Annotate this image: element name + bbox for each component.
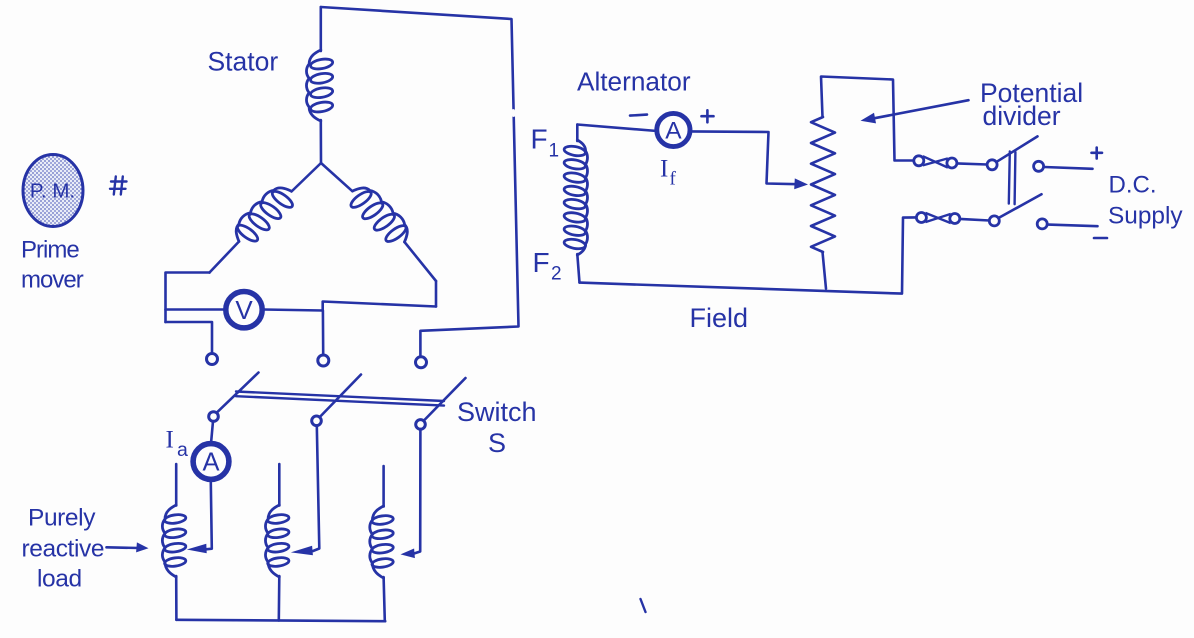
label minus (DC supply) bbox=[1094, 237, 1107, 240]
wire lower fuse to switch hinge bbox=[960, 219, 990, 221]
ammeter A (field) bbox=[657, 113, 690, 146]
wire F1 to field ammeter bbox=[577, 125, 657, 132]
wire DC plus lead bbox=[1044, 167, 1092, 169]
label I_f bbox=[660, 156, 677, 190]
switch S pole 2 bbox=[312, 416, 322, 426]
wire divider top bbox=[821, 77, 914, 161]
ammeter A (armature) bbox=[193, 444, 229, 480]
label Purely reactive load bbox=[22, 505, 105, 593]
inductor stator winding phase-2 (right diagonal) bbox=[344, 180, 415, 251]
svg-text:Purely: Purely bbox=[28, 505, 96, 532]
generator P.M. (prime mover) bbox=[23, 155, 83, 227]
wire switch pole 2 to load tap 2 bbox=[313, 425, 319, 551]
wire right winding to right corner bbox=[405, 242, 437, 281]
switch DC hinge lower bbox=[989, 216, 999, 226]
wire left vertical to voltmeter bbox=[166, 308, 226, 311]
label F2 bbox=[533, 247, 562, 285]
wire DC minus lead bbox=[1048, 225, 1097, 227]
wire left winding to left corner bbox=[210, 242, 240, 273]
switch DC gang bar bbox=[1009, 152, 1010, 204]
wire divider bottom lead bbox=[823, 252, 827, 289]
svg-text:A: A bbox=[665, 118, 682, 145]
svg-text:Prime: Prime bbox=[21, 237, 79, 264]
svg-text:f: f bbox=[670, 169, 677, 190]
wire F1 lead bbox=[576, 125, 579, 142]
wire load 3 bottom lead bbox=[384, 577, 385, 621]
wire left to terminal 1 bbox=[166, 322, 213, 356]
wire left corner step bbox=[166, 273, 210, 323]
svg-text:Stator: Stator bbox=[208, 47, 279, 77]
wire load 1 bottom lead bbox=[175, 576, 178, 620]
switch DC blade upper bbox=[997, 136, 1038, 161]
wire F2 lead bbox=[577, 254, 579, 283]
wire upper fuse to switch hinge bbox=[957, 163, 987, 164]
svg-text:load: load bbox=[37, 566, 82, 593]
fuse lower bbox=[916, 213, 926, 223]
wire load bottom bus bbox=[176, 620, 385, 621]
svg-text:a: a bbox=[177, 439, 188, 461]
node terminal 3 bbox=[416, 357, 427, 368]
label Prime mover bbox=[21, 237, 84, 294]
svg-text:S: S bbox=[488, 428, 506, 458]
node terminal 2 bbox=[318, 355, 329, 366]
load tap arrow 3 bbox=[401, 549, 415, 559]
svg-text:Switch: Switch bbox=[457, 397, 537, 427]
switch S blade 2 bbox=[320, 375, 361, 418]
voltmeter V bbox=[226, 292, 262, 328]
inductor load reactor 3 bbox=[370, 506, 394, 578]
svg-text:Alternator: Alternator bbox=[577, 67, 691, 97]
wire load 3 top lead bbox=[382, 466, 385, 507]
wire ammeter to load tap 1 bbox=[206, 482, 212, 549]
inductor alternator field winding bbox=[563, 140, 587, 255]
switch S pole 1 bbox=[209, 412, 219, 422]
switch DC contact upper bbox=[1034, 161, 1044, 171]
svg-text:I: I bbox=[660, 156, 668, 183]
wire switch pole 1 to ammeter bbox=[211, 421, 213, 443]
wire middle junction to terminal 2 bbox=[322, 311, 325, 356]
label F1 bbox=[531, 124, 560, 162]
svg-text:1: 1 bbox=[549, 141, 560, 162]
label minus (field ammeter) bbox=[630, 115, 647, 116]
svg-text:divider: divider bbox=[983, 101, 1061, 131]
load tap arrow 1 bbox=[187, 544, 207, 554]
switch DC hinge upper bbox=[987, 160, 997, 170]
wire stator coil to star point bbox=[319, 120, 322, 163]
divider annotation arrow bbox=[872, 100, 969, 119]
inductor load reactor 1 bbox=[162, 505, 186, 577]
switch DC contact lower bbox=[1037, 219, 1047, 229]
wire load 1 top lead bbox=[175, 464, 178, 506]
wire load 2 bottom lead bbox=[277, 576, 280, 621]
switch DC blade lower bbox=[999, 194, 1042, 218]
svg-text:I: I bbox=[166, 427, 174, 454]
switch S gang bar bbox=[236, 392, 444, 402]
svg-text:F: F bbox=[531, 124, 548, 155]
svg-text:reactive: reactive bbox=[22, 536, 105, 563]
node terminal 1 bbox=[207, 354, 218, 365]
wire stator top lead bbox=[319, 7, 322, 51]
switch S pole 3 bbox=[416, 420, 426, 430]
wire star point to right winding bbox=[321, 163, 353, 191]
svg-text:F: F bbox=[533, 247, 550, 278]
inductor stator winding phase-1 (left diagonal) bbox=[228, 180, 299, 250]
wiper arrow bbox=[794, 178, 808, 189]
label Switch S bbox=[457, 397, 537, 458]
switch S blade 3 bbox=[424, 378, 466, 421]
label Potential divider bbox=[980, 78, 1083, 131]
svg-text:D.C.: D.C. bbox=[1109, 171, 1157, 198]
wire voltmeter to middle junction bbox=[264, 310, 323, 311]
load tap arrow 2 bbox=[291, 546, 313, 556]
svg-text:V: V bbox=[235, 295, 253, 325]
wire load 2 top lead bbox=[278, 464, 281, 506]
label I_a bbox=[166, 427, 189, 462]
wire middle junction riser bbox=[323, 302, 436, 311]
svg-text:mover: mover bbox=[21, 267, 84, 294]
label shaft coupling # bbox=[114, 177, 116, 195]
inductor load reactor 2 bbox=[265, 505, 289, 577]
wire star point to left winding bbox=[292, 163, 322, 192]
switch S blade 1 bbox=[217, 373, 259, 413]
potentiometer (potential divider) resistor bbox=[811, 117, 835, 252]
wire field bottom bus bbox=[580, 217, 916, 293]
svg-text:Field: Field bbox=[690, 303, 749, 333]
wire phase-2 corner drop bbox=[435, 281, 438, 307]
wire switch pole 3 to load tap 3 bbox=[414, 429, 420, 554]
svg-text:Supply: Supply bbox=[1108, 203, 1183, 230]
inductor stator winding phase-3 (top) bbox=[306, 50, 333, 121]
label D.C. Supply bbox=[1108, 171, 1183, 229]
svg-text:A: A bbox=[202, 449, 219, 477]
label plus (field ammeter) bbox=[702, 115, 714, 118]
wire top loop from stator to switch pole 3 bbox=[321, 7, 519, 357]
svg-text:2: 2 bbox=[551, 264, 562, 285]
wire field ammeter to wiper bbox=[689, 131, 798, 184]
load annotation arrow bbox=[107, 546, 140, 549]
label plus (DC supply) bbox=[1092, 152, 1103, 155]
stray mark bbox=[641, 599, 646, 612]
svg-text:P. M.: P. M. bbox=[30, 180, 75, 203]
fuse upper bbox=[914, 156, 924, 166]
